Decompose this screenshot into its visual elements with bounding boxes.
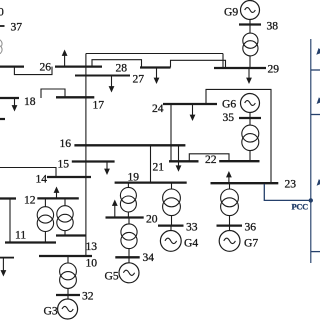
wire wind-farm collector vertical bbox=[310, 39, 312, 263]
label 28 bbox=[116, 62, 128, 75]
generator G3 bbox=[58, 299, 78, 319]
wire transformer to bus 32 bbox=[67, 288, 69, 295]
arrow wind unit 1 bbox=[316, 48, 320, 55]
bus 33 bbox=[158, 224, 184, 226]
bus 16 bbox=[74, 144, 185, 146]
wire line 28-29 hop bbox=[171, 60, 226, 68]
wire transformer to bus 36 bbox=[229, 216, 231, 226]
load arrow down at left edge stub bbox=[1, 258, 7, 277]
wire line 23-24 loop bbox=[206, 89, 271, 183]
bus 26 bbox=[55, 65, 102, 67]
label 22 bbox=[205, 153, 217, 166]
bus 10 bbox=[39, 255, 92, 257]
label 35 bbox=[223, 111, 235, 124]
svg-text:22: 22 bbox=[205, 153, 217, 166]
wire transformer to bus 22 bbox=[249, 151, 251, 162]
label 23 bbox=[285, 178, 297, 191]
transformer 23-36 bbox=[221, 189, 239, 216]
label PCC bbox=[292, 203, 309, 212]
wire long vertical trunk buses 26-27-17-16-15-14-13-10 bbox=[85, 54, 87, 257]
svg-text:17: 17 bbox=[93, 99, 105, 112]
load arrow down at bus 28 bbox=[154, 68, 160, 85]
svg-text:37: 37 bbox=[11, 21, 23, 34]
svg-text:G5: G5 bbox=[105, 270, 119, 283]
svg-text:33: 33 bbox=[186, 221, 198, 234]
node PCC junction dot bbox=[309, 198, 313, 202]
label 10 bbox=[86, 257, 98, 270]
wire collector stub y114 bbox=[311, 114, 320, 116]
wire line 21-22 hop bbox=[189, 154, 229, 162]
svg-text:26: 26 bbox=[40, 61, 52, 74]
svg-text:36: 36 bbox=[245, 221, 257, 234]
load arrow down at bus 15 bbox=[104, 162, 110, 176]
wire bus 34 to G5 bbox=[128, 257, 130, 263]
transformer 12-13 bbox=[57, 206, 73, 231]
bus 36 bbox=[217, 224, 243, 226]
bus 14 bbox=[47, 176, 91, 178]
wire bus 12 to transformer A bbox=[44, 198, 46, 206]
label G7 bbox=[244, 237, 258, 250]
arrow wind unit 3 bbox=[317, 179, 320, 186]
wire vertical 16-19 bbox=[150, 145, 152, 182]
generator G5 bbox=[119, 263, 139, 283]
wire bus 33 to G4 bbox=[170, 226, 172, 231]
label 13 bbox=[86, 240, 98, 253]
svg-text:PCC: PCC bbox=[292, 203, 309, 212]
bus stub left edge y258 bbox=[0, 257, 14, 259]
label 21 bbox=[153, 161, 165, 174]
label 16 bbox=[60, 137, 72, 150]
load arrow down at bus 24 bbox=[190, 104, 196, 121]
wire transformer B to bus 13 bbox=[64, 231, 66, 236]
svg-text:16: 16 bbox=[60, 137, 72, 150]
label 32 bbox=[82, 290, 94, 303]
svg-text:18: 18 bbox=[24, 95, 36, 108]
transformer 12-11 bbox=[37, 207, 53, 232]
label G3 bbox=[44, 305, 58, 318]
bus 19 bbox=[115, 181, 187, 183]
bus 29 bbox=[214, 67, 266, 69]
label G6 bbox=[222, 98, 236, 111]
label G4 bbox=[184, 237, 198, 250]
bus 13 bbox=[56, 234, 86, 236]
svg-text:13: 13 bbox=[86, 240, 98, 253]
svg-text:19: 19 bbox=[128, 171, 140, 184]
label 29 bbox=[268, 63, 280, 76]
bus 22 bbox=[219, 160, 259, 162]
bus 32 bbox=[56, 294, 80, 296]
transformer 19-33 bbox=[163, 189, 181, 216]
label 26 bbox=[40, 61, 52, 74]
wire left column edge-bus to bus 11 bbox=[9, 199, 11, 243]
svg-text:35: 35 bbox=[223, 111, 235, 124]
bus 21 bbox=[169, 160, 199, 162]
bus 18 bbox=[0, 97, 19, 99]
label 36 bbox=[245, 221, 257, 234]
transformer 19-20 bbox=[120, 187, 136, 212]
svg-text:29: 29 bbox=[268, 63, 280, 76]
svg-text:10: 10 bbox=[86, 257, 98, 270]
bus 17 bbox=[56, 96, 94, 98]
svg-text:G7: G7 bbox=[244, 237, 258, 250]
svg-text:28: 28 bbox=[116, 62, 128, 75]
wire bus 38 to transformer bbox=[249, 25, 251, 34]
label 27 bbox=[133, 73, 145, 86]
wire transformer to bus 33 bbox=[171, 216, 173, 226]
label 14 bbox=[36, 173, 48, 186]
svg-text:12: 12 bbox=[24, 194, 36, 207]
svg-text:14: 14 bbox=[36, 173, 48, 186]
transformer G9 38-29 bbox=[243, 33, 258, 56]
bus 38 bbox=[239, 23, 261, 25]
label 12 bbox=[24, 194, 36, 207]
svg-text:34: 34 bbox=[143, 251, 155, 264]
bus 37 partial stub bbox=[0, 25, 5, 27]
bus 12 bbox=[37, 197, 79, 199]
svg-text:32: 32 bbox=[82, 290, 94, 303]
svg-text:23: 23 bbox=[285, 178, 297, 191]
svg-text:0: 0 bbox=[0, 6, 4, 19]
wire line 18-17 hop bbox=[41, 89, 65, 98]
transformer partial at left edge bbox=[0, 39, 2, 54]
bus 11 bbox=[5, 241, 56, 243]
generator G7 bbox=[219, 231, 240, 252]
wire transformer to bus 29 bbox=[249, 56, 251, 68]
bus 28 bbox=[140, 66, 171, 68]
bus 23 bbox=[211, 182, 279, 184]
generator G4 bbox=[160, 231, 181, 252]
load arrow down at bus 27 bbox=[109, 76, 115, 93]
svg-text:38: 38 bbox=[267, 20, 279, 33]
wire bus 36 to G7 bbox=[229, 226, 231, 231]
wire bus 19 to transformer 19-20 bbox=[127, 183, 129, 188]
label G5 bbox=[105, 270, 119, 283]
wire bus 20 to transformer 20-34 bbox=[128, 218, 130, 225]
label 38 bbox=[267, 20, 279, 33]
label 24 bbox=[152, 102, 164, 115]
wire line 26-29 top horizontal bbox=[86, 53, 223, 55]
wire vertical 24-16-21 bbox=[170, 104, 172, 161]
svg-text:24: 24 bbox=[152, 102, 164, 115]
load arrow up at bus 26 bbox=[62, 50, 68, 67]
wire G6 to bus 35 bbox=[249, 113, 251, 119]
bus stub left edge y119 bbox=[0, 118, 5, 120]
load arrow down bus16-21 bbox=[176, 145, 182, 172]
wire bus 12 to transformer B bbox=[64, 198, 66, 205]
label G9 bbox=[224, 6, 238, 19]
svg-text:G3: G3 bbox=[44, 305, 58, 318]
svg-text:27: 27 bbox=[133, 73, 145, 86]
label 19 bbox=[128, 171, 140, 184]
wire bus 10 to transformer 10-32 bbox=[67, 256, 69, 263]
label 11 bbox=[15, 229, 26, 242]
wire PCC connection from bus 23 bbox=[264, 184, 311, 200]
label 33 bbox=[186, 221, 198, 234]
wire line 26-28 hop bbox=[92, 60, 142, 68]
load arrow up at bus 23 bbox=[226, 171, 232, 183]
label 15 bbox=[58, 158, 70, 171]
bus 27 bbox=[75, 75, 130, 77]
wire line 25-26 under-step bbox=[14, 67, 52, 75]
bus stub left edge y198 bbox=[0, 197, 16, 199]
wire line 14 to left edge with step bbox=[0, 168, 56, 178]
transformer 20-34 bbox=[121, 224, 137, 249]
wire line 26-29 right drop to bus 29 bbox=[222, 54, 224, 69]
wire G9 to bus 38 bbox=[249, 20, 251, 25]
bus 34 bbox=[115, 256, 139, 258]
wire bus 35 to transformer bbox=[249, 118, 251, 125]
wire bus 32 to G3 bbox=[67, 295, 69, 299]
wire bus 23 to transformer 23-36 bbox=[229, 183, 231, 189]
generator G9 bbox=[241, 1, 260, 20]
wire transformer to bus 20 bbox=[127, 212, 129, 218]
svg-text:15: 15 bbox=[58, 158, 70, 171]
wire collector stub y251 bbox=[311, 251, 320, 253]
svg-text:G6: G6 bbox=[222, 98, 236, 111]
wire transformer to bus 34 bbox=[128, 249, 130, 258]
bus 35 bbox=[239, 117, 261, 119]
label 34 bbox=[143, 251, 155, 264]
arrow wind unit 2 bbox=[317, 97, 320, 104]
transformer 10-32 bbox=[60, 263, 77, 288]
svg-text:20: 20 bbox=[146, 213, 158, 226]
svg-text:G4: G4 bbox=[184, 237, 198, 250]
label 0 partial top-left bbox=[0, 6, 4, 19]
load arrow down at bus 18 bbox=[12, 98, 18, 112]
generator G6 bbox=[241, 94, 260, 113]
svg-text:G9: G9 bbox=[224, 6, 238, 19]
bus 24 bbox=[163, 103, 217, 105]
svg-text:11: 11 bbox=[15, 229, 26, 242]
wire bus 19 to transformer 19-33 bbox=[171, 183, 173, 189]
svg-text:21: 21 bbox=[153, 161, 165, 174]
wire collector stub y70 bbox=[311, 69, 320, 71]
label 20 bbox=[146, 213, 158, 226]
load arrow up at bus 20 bbox=[112, 200, 118, 218]
label 17 bbox=[93, 99, 105, 112]
load arrow up at bus 12 bbox=[54, 187, 60, 199]
bus 20 bbox=[106, 216, 144, 218]
bus 15 bbox=[72, 160, 115, 162]
load arrow down at bus 29 bbox=[246, 68, 252, 84]
bus 25 partial left segment bbox=[0, 65, 24, 67]
label 18 bbox=[24, 95, 36, 108]
wire transformer A to bus 11 bbox=[44, 231, 46, 242]
transformer G6 35-22 bbox=[242, 125, 259, 151]
label 37 bbox=[11, 21, 23, 34]
